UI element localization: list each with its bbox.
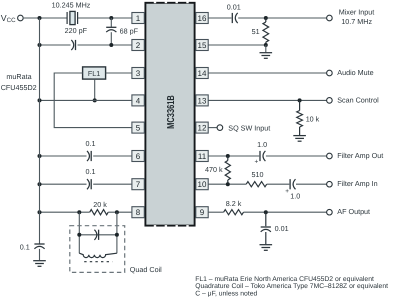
svg-text:14: 14 [198, 69, 207, 78]
svg-text:13: 13 [198, 96, 207, 105]
wire crystal to pin 1 [78, 17, 132, 19]
pin 11 box [196, 151, 208, 162]
junction crystal output node [109, 16, 113, 20]
pin 10 box [196, 179, 208, 190]
junction rail row 8 [38, 210, 42, 214]
wire quad coil left leg [78, 212, 80, 253]
crystal value label [52, 0, 91, 9]
wire 1.0 cap to filter amp in [296, 183, 327, 185]
mixer input terminal [327, 15, 333, 21]
wire pin 11 to 1.0 cap [208, 155, 259, 157]
ground pin 15 [260, 53, 273, 59]
svg-text:51: 51 [252, 27, 260, 36]
svg-text:0.1: 0.1 [86, 139, 96, 148]
capacitor 0.1 row 6 [87, 151, 91, 161]
crystal Y1 10.245 MHz [67, 11, 78, 24]
junction quad cap left [77, 233, 81, 237]
svg-text:3: 3 [136, 69, 141, 78]
svg-text:68 pF: 68 pF [120, 27, 139, 36]
pin 1 box [132, 13, 144, 24]
svg-text:8.2 k: 8.2 k [226, 199, 242, 208]
ground 10 k [293, 136, 306, 142]
wire 0.01 cap to mixer terminal [238, 17, 327, 19]
10.7 MHz label [341, 17, 372, 26]
svg-text:Mixer Input: Mixer Input [339, 8, 375, 17]
wire pin 13 to scan control [208, 99, 327, 101]
filter amp in terminal [327, 181, 333, 187]
svg-text:10: 10 [198, 180, 207, 189]
svg-text:Filter Amp In: Filter Amp In [337, 179, 377, 188]
svg-text:15: 15 [198, 41, 207, 50]
capacitor 220 pF [71, 40, 75, 50]
svg-text:SQ SW Input: SQ SW Input [228, 123, 270, 132]
junction rail row 7 [38, 182, 42, 186]
svg-text:AF Output: AF Output [337, 207, 370, 216]
svg-text:510: 510 [252, 170, 264, 179]
wire 1.0 cap to filter amp out [266, 155, 327, 157]
0.01 value label [227, 2, 241, 11]
svg-text:1: 1 [136, 14, 141, 23]
svg-text:16: 16 [198, 14, 207, 23]
wire rail to 0.1 cap row 7 [40, 183, 87, 185]
ground AF output [260, 245, 273, 251]
pin 2 box [132, 40, 144, 51]
svg-text:10.245 MHz: 10.245 MHz [52, 0, 91, 9]
0.1 value label row 7 [86, 167, 96, 176]
svg-text:20 k: 20 k [93, 200, 107, 209]
resistor 510 [246, 182, 267, 187]
core dotted line [84, 261, 112, 263]
pin 16 box [196, 13, 208, 24]
wire pin 9 to 8.2 k [208, 211, 223, 213]
pin 3 box [132, 68, 144, 79]
wire rail to 0.1 cap row 6 [40, 155, 87, 157]
pin 5 box [132, 122, 144, 133]
svg-text:Audio Mute: Audio Mute [337, 68, 373, 77]
svg-text:10.7 MHz: 10.7 MHz [341, 17, 372, 26]
ground Vcc bypass [33, 261, 46, 267]
resistor 470 k [225, 156, 230, 184]
svg-text:9: 9 [200, 208, 205, 217]
inductor quadrature coil [79, 253, 117, 257]
capacitor 68 pF [106, 18, 116, 45]
pin 6 box [132, 151, 144, 162]
junction pin 15 node [264, 43, 268, 47]
wire FL1 to pin 3 [106, 72, 132, 74]
note line 2 [195, 283, 388, 290]
svg-text:4: 4 [136, 96, 141, 105]
resistor 8.2 k [224, 210, 244, 215]
pin 12 box [196, 122, 208, 133]
svg-text:C – μF, unless noted: C – μF, unless noted [195, 291, 257, 298]
470 k value label [205, 165, 223, 174]
resistor 20 k [90, 210, 109, 215]
junction rail row 2 [38, 43, 42, 47]
svg-text:8: 8 [136, 208, 141, 217]
svg-text:Quadrature Coil – Toko America: Quadrature Coil – Toko America Type 7MC–… [195, 283, 388, 290]
op-amp U1 MC3361B IC body [145, 2, 194, 227]
svg-text:MC3361B: MC3361B [164, 95, 176, 129]
Vcc terminal [18, 15, 24, 21]
svg-text:FL1 – muRata Erie North Americ: FL1 – muRata Erie North America CFU455D2… [195, 276, 374, 283]
Vcc label [1, 13, 16, 24]
wire 0.1 cap to pin 7 [93, 183, 132, 185]
20 k value label [93, 200, 107, 209]
pin 8 box [132, 207, 144, 218]
plus sign out cap [255, 159, 259, 166]
wire quad coil cap row [79, 234, 117, 236]
junction pin 10 node [226, 182, 230, 186]
note line 1 [195, 276, 374, 283]
svg-text:CFU455D2: CFU455D2 [1, 83, 37, 92]
Quad Coil label [130, 265, 162, 274]
svg-text:12: 12 [198, 124, 207, 133]
junction quad cap right [115, 233, 119, 237]
svg-text:0.01: 0.01 [275, 224, 289, 233]
0.1 value label Vcc bypass [20, 242, 30, 251]
junction Vcc rail [38, 16, 42, 20]
wire bypass cap to ground [39, 249, 41, 260]
junction 20 k right node [115, 210, 119, 214]
audio mute terminal [327, 70, 333, 76]
wire 510 to 1.0 cap [267, 183, 290, 185]
filter FL1 box [83, 67, 106, 79]
muRata label line 1 [6, 72, 31, 81]
10 k value label [306, 115, 320, 124]
51 value label [252, 27, 260, 36]
capacitor quad coil [94, 230, 98, 240]
wire 20 k to pin 8 [108, 211, 132, 213]
note line 3 [195, 291, 257, 298]
0.1 value label row 6 [86, 139, 96, 148]
SQ SW Input label [228, 123, 270, 132]
0.01 value label AF [275, 224, 289, 233]
Audio Mute label [337, 68, 373, 77]
wire rail to 20 k resistor [40, 211, 90, 213]
SQ SW input terminal [217, 125, 223, 131]
resistor 10 k [297, 100, 303, 135]
capacitor 0.01 mixer input [232, 13, 237, 23]
Filter Amp In label [337, 179, 377, 188]
svg-text:Scan Control: Scan Control [337, 95, 379, 104]
capacitor 0.01 AF output [261, 212, 271, 244]
Filter Amp Out label [337, 151, 383, 160]
AF output terminal [327, 209, 333, 215]
svg-text:+: + [285, 188, 289, 195]
wire Vcc rail to pin 4 [40, 99, 132, 101]
scan control terminal [327, 98, 333, 104]
220 pF value label [65, 26, 88, 35]
svg-text:Quad Coil: Quad Coil [130, 265, 162, 274]
Scan Control label [337, 95, 379, 104]
svg-text:470 k: 470 k [205, 165, 223, 174]
wire pin 14 to audio mute [208, 72, 327, 74]
wire Vcc vertical rail [39, 18, 41, 244]
quad coil dashed box [70, 226, 125, 273]
capacitor 0.1 row 7 [87, 179, 91, 189]
wire Vcc to crystal [23, 17, 67, 19]
svg-text:220 pF: 220 pF [65, 26, 88, 35]
Mixer Input label [339, 8, 375, 17]
wire pin 10 to 510 [208, 183, 246, 185]
svg-text:Filter Amp Out: Filter Amp Out [337, 151, 383, 160]
pin 4 box [132, 95, 144, 106]
wire pin 15 node to ground [265, 45, 267, 52]
junction mixer node [264, 16, 268, 20]
capacitor 1.0 filter amp out [260, 151, 265, 161]
svg-text:1.0: 1.0 [290, 191, 300, 200]
junction scan control node [298, 98, 302, 102]
pin 13 box [196, 95, 208, 106]
junction FL1 tap row 4 [93, 98, 97, 102]
junction AF output node [264, 210, 268, 214]
510 value label [252, 170, 264, 179]
wire 8.2 k to AF output [244, 211, 327, 213]
1.0 value label in [290, 191, 300, 200]
svg-text:FL1: FL1 [88, 69, 100, 78]
svg-text:10 k: 10 k [306, 115, 320, 124]
junction 68 pF node row 2 [109, 43, 113, 47]
wire pin 16 to 0.01 cap [208, 17, 231, 19]
svg-text:6: 6 [136, 152, 141, 161]
AF Output label [337, 207, 370, 216]
wire pin 15 to resistor node [208, 44, 266, 46]
wire quad coil right leg [116, 212, 118, 253]
svg-text:+: + [255, 159, 259, 166]
junction rail row 4 [38, 98, 42, 102]
8.2 k value label [226, 199, 242, 208]
resistor 51 [263, 18, 269, 45]
svg-text:0.1: 0.1 [20, 242, 30, 251]
svg-text:0.1: 0.1 [86, 167, 96, 176]
1.0 value label out [257, 140, 267, 149]
svg-text:2: 2 [136, 41, 141, 50]
wire Vcc rail to 220 pF [40, 44, 71, 46]
wire 220 pF to pin 2 [78, 44, 132, 46]
junction pin 11 node [226, 154, 230, 158]
junction rail row 6 [38, 154, 42, 158]
svg-text:1.0: 1.0 [257, 140, 267, 149]
svg-text:5: 5 [136, 124, 141, 133]
filter amp out terminal [327, 153, 333, 159]
capacitor 0.1 Vcc bypass [34, 244, 44, 249]
pin 15 box [196, 40, 208, 51]
junction 20 k left node [77, 210, 81, 214]
wire FL1 ground tap [94, 79, 96, 100]
pin 9 box [196, 207, 208, 218]
svg-text:0.01: 0.01 [227, 2, 241, 11]
wire 0.1 cap to pin 6 [93, 155, 132, 157]
wire FL1 input bracket to pin 5 [54, 73, 132, 128]
pin 14 box [196, 68, 208, 79]
wire pin 12 to SQ SW input [208, 127, 217, 129]
svg-text:11: 11 [198, 152, 207, 161]
pin 7 box [132, 179, 144, 190]
68 pF value label [120, 27, 139, 36]
svg-text:7: 7 [136, 180, 141, 189]
plus sign in cap [285, 188, 289, 195]
muRata label line 2 [1, 83, 37, 92]
svg-text:muRata: muRata [6, 72, 31, 81]
capacitor 1.0 filter amp in [290, 179, 295, 189]
